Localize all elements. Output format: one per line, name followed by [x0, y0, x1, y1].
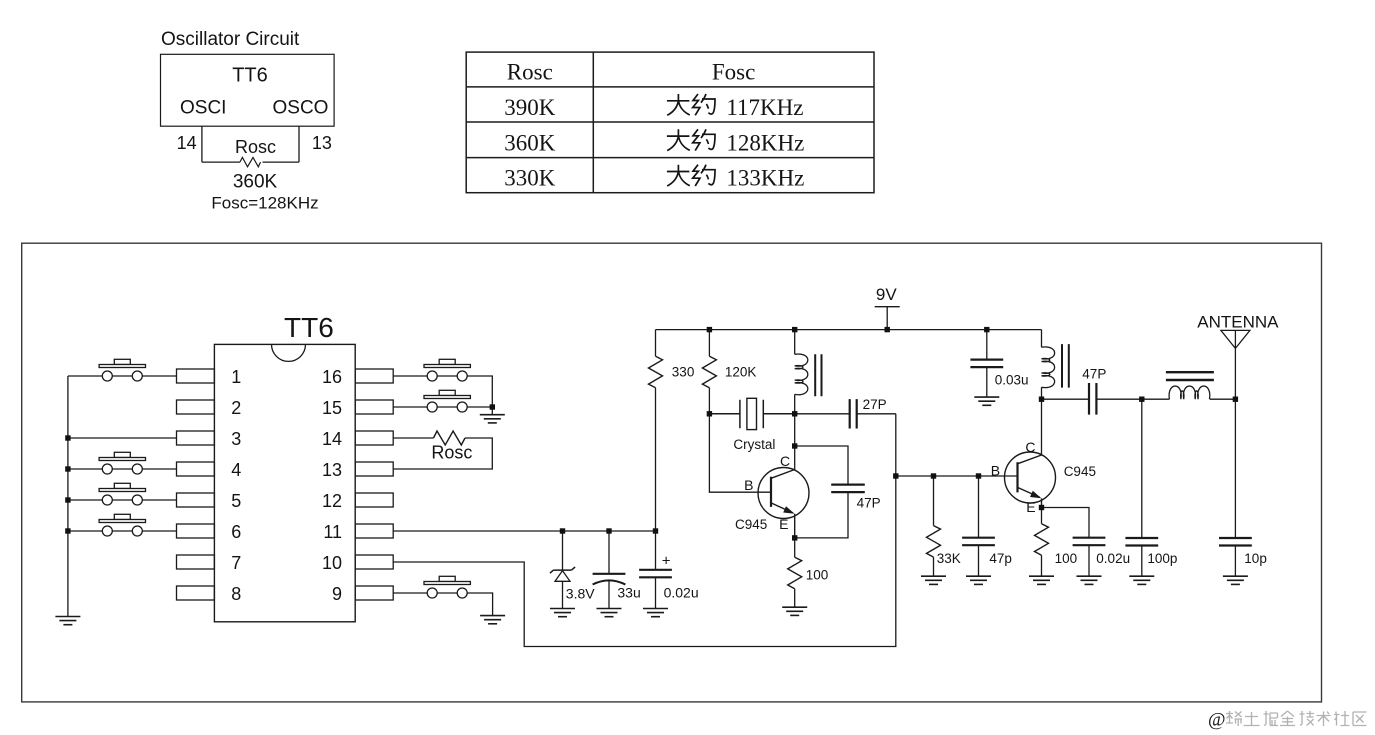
svg-text:7: 7: [231, 553, 241, 573]
svg-text:5: 5: [231, 491, 241, 511]
svg-text:33u: 33u: [617, 585, 640, 601]
svg-text:Rosc: Rosc: [235, 137, 276, 157]
svg-text:OSCO: OSCO: [273, 97, 329, 118]
svg-text:14: 14: [322, 429, 342, 449]
svg-text:3: 3: [231, 429, 241, 449]
svg-text:11: 11: [323, 522, 342, 542]
svg-text:10: 10: [322, 553, 342, 573]
svg-text:E: E: [779, 516, 788, 532]
svg-text:3.8V: 3.8V: [566, 585, 595, 601]
svg-text:Crystal: Crystal: [733, 437, 775, 452]
svg-text:330: 330: [672, 365, 695, 380]
svg-text:330K: 330K: [504, 166, 556, 191]
svg-text:C945: C945: [1064, 464, 1096, 479]
svg-text:133KHz: 133KHz: [726, 166, 804, 191]
svg-text:120K: 120K: [725, 365, 757, 380]
svg-text:360K: 360K: [504, 130, 556, 155]
svg-text:Fosc: Fosc: [712, 60, 755, 85]
svg-text:8: 8: [231, 584, 241, 604]
svg-text:@: @: [1208, 710, 1226, 731]
svg-text:B: B: [991, 463, 1000, 479]
svg-text:C: C: [1025, 439, 1035, 455]
svg-text:14: 14: [177, 133, 197, 153]
svg-text:C945: C945: [735, 517, 767, 532]
svg-text:9: 9: [332, 584, 342, 604]
svg-text:4: 4: [231, 460, 241, 480]
svg-text:1: 1: [231, 367, 241, 387]
svg-text:100: 100: [1055, 551, 1078, 566]
svg-text:9V: 9V: [876, 285, 897, 304]
svg-text:TT6: TT6: [232, 65, 268, 87]
svg-text:12: 12: [322, 491, 342, 511]
svg-text:360K: 360K: [233, 172, 278, 193]
svg-text:128KHz: 128KHz: [726, 130, 804, 155]
svg-text:100p: 100p: [1147, 551, 1177, 566]
svg-text:390K: 390K: [504, 95, 556, 120]
svg-text:TT6: TT6: [284, 312, 334, 343]
svg-text:C: C: [780, 453, 790, 469]
svg-text:47p: 47p: [989, 551, 1012, 566]
svg-text:OSCI: OSCI: [180, 97, 226, 118]
svg-text:10p: 10p: [1244, 551, 1267, 566]
svg-text:E: E: [1026, 499, 1035, 515]
svg-text:100: 100: [806, 568, 829, 583]
svg-text:0.03u: 0.03u: [995, 373, 1029, 388]
svg-text:+: +: [662, 553, 671, 570]
svg-text:15: 15: [322, 398, 342, 418]
svg-text:ANTENNA: ANTENNA: [1197, 313, 1279, 332]
svg-text:Rosc: Rosc: [431, 443, 472, 463]
svg-text:B: B: [744, 477, 753, 493]
svg-text:6: 6: [231, 522, 241, 542]
svg-text:13: 13: [322, 460, 342, 480]
svg-text:Oscillator Circuit: Oscillator Circuit: [161, 29, 300, 50]
svg-text:0.02u: 0.02u: [664, 585, 699, 601]
svg-text:27P: 27P: [863, 397, 887, 412]
svg-text:Rosc: Rosc: [507, 60, 553, 85]
svg-text:47P: 47P: [857, 496, 881, 511]
svg-text:117KHz: 117KHz: [726, 95, 803, 120]
svg-text:16: 16: [322, 367, 342, 387]
svg-text:Fosc=128KHz: Fosc=128KHz: [211, 194, 318, 213]
svg-text:0.02u: 0.02u: [1096, 551, 1130, 566]
svg-text:2: 2: [231, 398, 241, 418]
svg-text:13: 13: [312, 133, 332, 153]
svg-text:33K: 33K: [937, 551, 961, 566]
svg-text:47P: 47P: [1082, 367, 1106, 382]
